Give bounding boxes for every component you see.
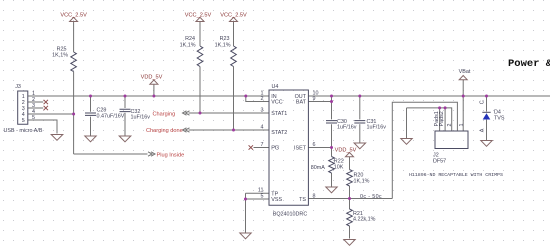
svg-text:Pads2: Pads2 (439, 111, 445, 126)
svg-text:VDD_5V: VDD_5V (335, 147, 357, 153)
svg-text:Power &: Power & (508, 58, 550, 70)
svg-text:Plug Inside: Plug Inside (157, 152, 185, 158)
svg-text:1uF/16v: 1uF/16v (337, 125, 357, 131)
svg-text:DF57: DF57 (433, 159, 446, 165)
svg-text:VCC_2.5V: VCC_2.5V (60, 12, 87, 18)
svg-text:VDD_5V: VDD_5V (141, 75, 163, 81)
svg-text:10K: 10K (334, 164, 344, 170)
svg-text:U4: U4 (272, 84, 279, 90)
svg-text:PG: PG (271, 146, 279, 152)
svg-text:5: 5 (22, 118, 25, 124)
svg-text:5: 5 (261, 193, 264, 199)
svg-text:1uF/16v: 1uF/16v (367, 125, 387, 131)
svg-text:VCC: VCC (271, 100, 282, 106)
svg-text:C: C (479, 100, 485, 104)
svg-text:Charging: Charging (153, 111, 176, 117)
svg-text:USB - micro A/B: USB - micro A/B (4, 128, 43, 134)
svg-text:5: 5 (32, 115, 35, 121)
svg-text:6: 6 (313, 142, 316, 148)
svg-text:H11896-ND RECAPTABLE WITH CRIM: H11896-ND RECAPTABLE WITH CRIMPS (409, 172, 503, 178)
svg-text:TVS: TVS (494, 116, 505, 122)
svg-text:R23: R23 (220, 36, 230, 42)
svg-text:VSS: VSS (271, 197, 282, 203)
svg-text:9: 9 (313, 96, 316, 102)
svg-text:1: 1 (459, 124, 465, 127)
svg-text:1uF/16v: 1uF/16v (131, 115, 151, 121)
svg-text:4: 4 (261, 124, 264, 130)
svg-text:0c - 50c: 0c - 50c (360, 194, 382, 200)
svg-text:8: 8 (313, 193, 316, 199)
svg-text:VCC_2.5V: VCC_2.5V (185, 12, 212, 18)
svg-text:R24: R24 (185, 36, 195, 42)
svg-text:1K,1%: 1K,1% (52, 53, 68, 59)
svg-text:80mA: 80mA (311, 165, 325, 171)
svg-text:1K,1%: 1K,1% (354, 178, 370, 184)
svg-text:J3: J3 (15, 84, 21, 90)
svg-text:2: 2 (261, 96, 264, 102)
svg-text:A: A (479, 128, 485, 132)
svg-text:1K,1%: 1K,1% (215, 42, 231, 48)
svg-text:BAT: BAT (296, 100, 307, 106)
svg-text:STAT1: STAT1 (271, 111, 287, 117)
svg-text:TS: TS (299, 197, 306, 203)
svg-text:3: 3 (261, 107, 264, 113)
svg-text:4.22k,1%: 4.22k,1% (353, 216, 376, 222)
svg-text:7: 7 (261, 142, 264, 148)
svg-text:BQ24010DRC: BQ24010DRC (273, 211, 308, 217)
svg-text:Charging done: Charging done (146, 128, 183, 134)
svg-text:VBat: VBat (459, 69, 471, 75)
svg-text:1K,1%: 1K,1% (180, 42, 196, 48)
svg-text:2: 2 (447, 124, 453, 127)
svg-text:ISET: ISET (294, 146, 307, 152)
svg-text:0.47uF/16V: 0.47uF/16V (97, 114, 125, 120)
svg-text:VCC_2.5V: VCC_2.5V (220, 12, 247, 18)
svg-text:STAT2: STAT2 (271, 130, 287, 136)
